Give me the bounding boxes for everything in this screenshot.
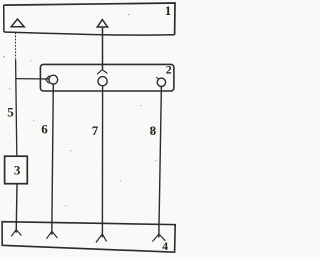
earth foot of wire 6 — [46, 231, 57, 238]
svg-text:8: 8 — [150, 123, 157, 138]
box 3 — [5, 156, 28, 184]
svg-text:3: 3 — [14, 163, 21, 178]
wire 8 (from circle U3 to bar 4) — [159, 87, 162, 238]
caret mark of circle U2 — [97, 70, 107, 75]
horizontal wire stub from wire 5 to circle U1 — [16, 78, 49, 80]
wire 7 upper segment (triangle to box 2) — [102, 28, 104, 70]
box 2 — [40, 64, 174, 91]
circle symbol U2 in box 2 (middle) — [98, 77, 107, 86]
scan noise specks — [3, 14, 157, 206]
wire 6 (from circle U1 to bar 4) — [52, 84, 54, 235]
svg-text:2: 2 — [166, 62, 172, 76]
svg-text:6: 6 — [41, 121, 48, 136]
triangle symbol in box 1 (middle) — [97, 20, 107, 27]
wire 5 (left vertical) — [16, 32, 17, 156]
circle symbol U3 in box 2 (right) — [157, 78, 165, 86]
svg-text:5: 5 — [7, 104, 14, 119]
tick mark of circle U1 — [46, 76, 49, 84]
wire 7 lower segment (circle U2 to bar 4) — [101, 86, 103, 238]
earth foot of wire 5 — [11, 230, 21, 237]
tick mark of circle U3 — [156, 77, 158, 79]
circle symbol U1 in box 2 (left) — [49, 75, 58, 84]
earth foot of wire 7 — [96, 234, 107, 243]
svg-text:1: 1 — [165, 3, 172, 18]
earth foot of wire 8 — [152, 234, 165, 242]
svg-text:4: 4 — [162, 239, 168, 253]
svg-text:7: 7 — [92, 123, 99, 138]
box 1 (top busbar box) — [4, 3, 175, 35]
bar 4 (bottom earth bus) — [2, 222, 175, 253]
triangle symbol in box 1 (left) — [11, 19, 24, 27]
wire 5 lower segment (box 3 to bar 4) — [15, 184, 18, 233]
